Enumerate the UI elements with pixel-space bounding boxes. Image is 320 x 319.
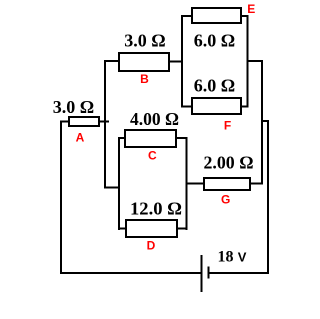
resistor G box bbox=[204, 178, 250, 190]
wire: F left stub bbox=[182, 106, 193, 108]
wire: A right stub bbox=[99, 121, 109, 123]
svg-text:18: 18 bbox=[218, 249, 234, 266]
wire: C/D branch output to resistor G bbox=[186, 183, 205, 185]
wire: C/D left bracket vertical bbox=[118, 137, 120, 230]
wire: D left stub bbox=[119, 228, 127, 230]
wire: C/D right bracket vertical bbox=[186, 137, 188, 230]
wire: C left stub bbox=[119, 137, 126, 139]
svg-text:2.00 Ω: 2.00 Ω bbox=[204, 153, 254, 173]
resistor A box bbox=[69, 117, 99, 126]
wire: G right wire to mid-right bus bbox=[249, 183, 263, 185]
wire: top horizontal to resistor B bbox=[105, 60, 119, 62]
svg-text:4.00 Ω: 4.00 Ω bbox=[130, 109, 179, 129]
wire: E/F left bracket vertical bbox=[181, 15, 183, 108]
resistor F box bbox=[192, 98, 241, 114]
wire: mid-right vertical bus joining top and bottom branches bbox=[261, 60, 263, 185]
resistor C box bbox=[125, 130, 176, 147]
svg-text:G: G bbox=[221, 193, 230, 207]
battery BT1 short plate (negative) bbox=[208, 267, 210, 279]
wire: left vertical from resistor A down to battery bottom wire bbox=[60, 122, 62, 275]
wire: A left stub bbox=[60, 121, 69, 123]
svg-text:E: E bbox=[247, 2, 255, 16]
resistor D box bbox=[126, 220, 177, 237]
svg-text:6.0 Ω: 6.0 Ω bbox=[194, 76, 235, 96]
wire: E/F branch output to mid-right bus bbox=[247, 60, 263, 62]
wire: C right stub bbox=[175, 137, 187, 139]
svg-text:A: A bbox=[76, 131, 85, 145]
svg-text:6.0 Ω: 6.0 Ω bbox=[194, 31, 235, 51]
resistor E box bbox=[192, 8, 241, 23]
wire: B right stub to E/F bracket bbox=[169, 61, 183, 63]
svg-text:3.0 Ω: 3.0 Ω bbox=[53, 97, 94, 117]
wire: bottom wire right of battery bbox=[209, 272, 270, 274]
svg-text:3.0 Ω: 3.0 Ω bbox=[124, 31, 165, 51]
battery BT1 long plate (positive) bbox=[201, 255, 203, 292]
svg-text:F: F bbox=[224, 119, 231, 133]
svg-text:12.0 Ω: 12.0 Ω bbox=[130, 199, 182, 219]
wire: E right stub bbox=[240, 15, 248, 17]
wire: D right stub bbox=[176, 228, 187, 230]
svg-text:V: V bbox=[238, 249, 247, 264]
resistor B box bbox=[119, 53, 169, 71]
wire: E/F right bracket vertical bbox=[247, 15, 249, 108]
svg-text:B: B bbox=[140, 72, 149, 86]
svg-text:D: D bbox=[147, 239, 156, 253]
wire: main left junction vertical (node after A) bbox=[104, 60, 106, 189]
wire: junction horizontal to C/D bracket bbox=[105, 187, 120, 189]
wire: E left stub bbox=[182, 15, 193, 17]
wire: outer right vertical bbox=[267, 121, 269, 274]
wire: tap from outer right vertical to mid-right bus bbox=[261, 120, 269, 122]
wire: bottom wire left of battery bbox=[60, 272, 202, 274]
wire: F right stub bbox=[240, 106, 248, 108]
svg-text:C: C bbox=[148, 149, 157, 163]
